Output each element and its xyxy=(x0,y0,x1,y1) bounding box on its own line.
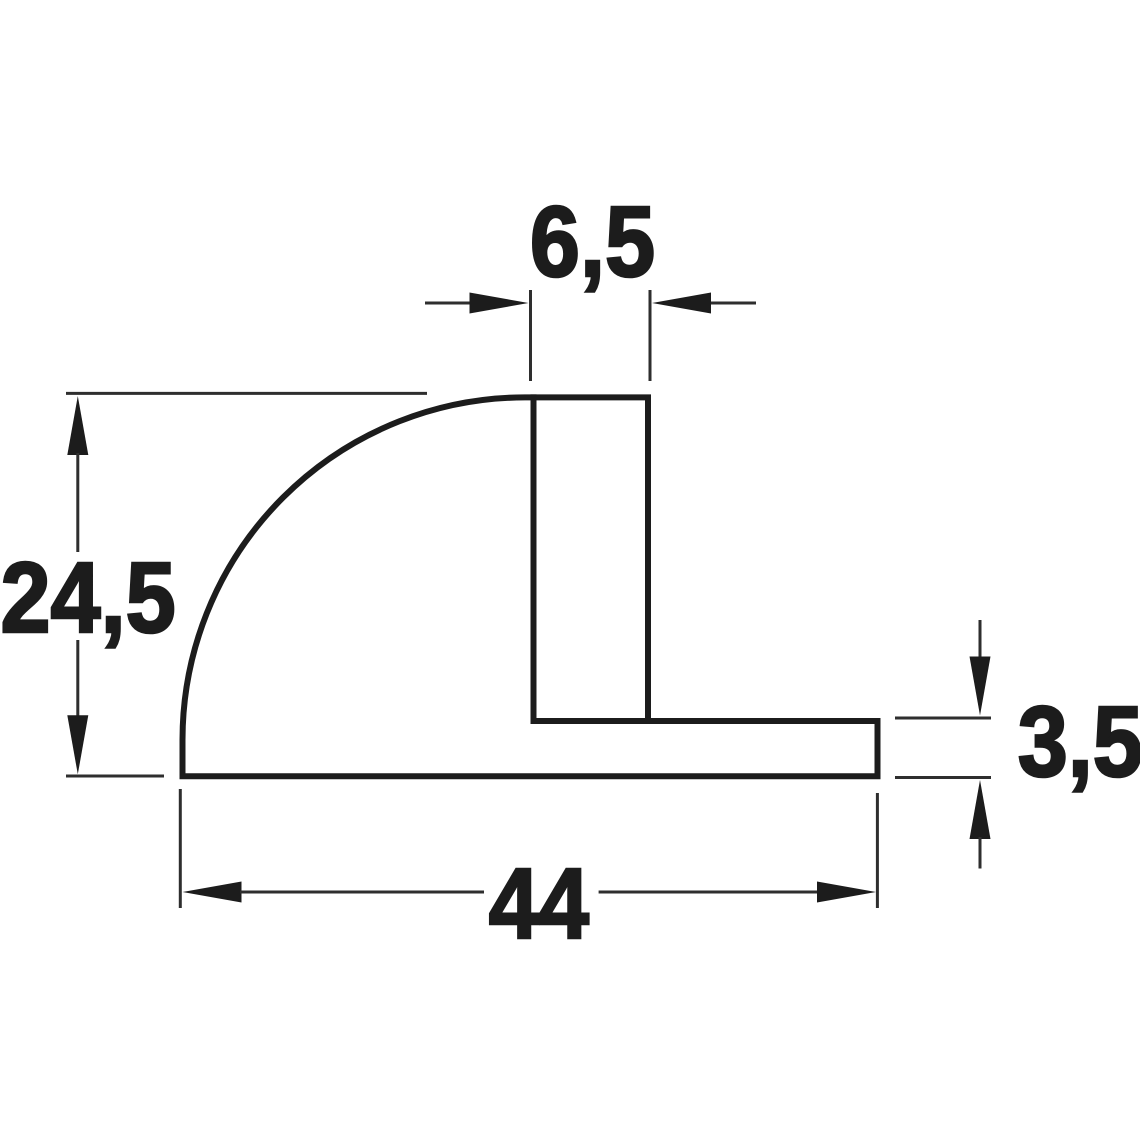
dim 3,5 lower arrowhead xyxy=(970,780,991,839)
extension line 6,5 left xyxy=(529,290,532,381)
dim 24,5 upper tail xyxy=(76,453,79,552)
svg-text:3,5: 3,5 xyxy=(1018,687,1140,798)
door stop profile outline xyxy=(183,397,878,776)
label 6,5 xyxy=(530,187,655,298)
extension line 44 left xyxy=(179,789,182,908)
dim 3,5 upper arrowhead xyxy=(970,657,991,716)
dim 6,5 right arrowhead xyxy=(652,293,711,314)
svg-text:44: 44 xyxy=(489,849,589,960)
svg-text:6,5: 6,5 xyxy=(530,187,655,298)
dim 24,5 upper arrowhead xyxy=(67,396,88,455)
dim 44 right tail xyxy=(599,891,817,894)
dim 24,5 lower arrowhead xyxy=(67,715,88,774)
label 44 xyxy=(489,849,589,960)
label 24,5 xyxy=(1,543,176,654)
dim 44 left tail xyxy=(240,891,484,894)
dim 6,5 left tail xyxy=(425,302,471,305)
extension line 24,5 top xyxy=(66,392,427,395)
label 3,5 xyxy=(1018,687,1140,798)
dim 3,5 upper tail xyxy=(979,620,982,658)
dim 6,5 left arrowhead xyxy=(470,293,529,314)
extension line 24,5 bottom xyxy=(66,775,164,778)
dim 24,5 lower tail xyxy=(76,640,79,716)
dim 44 left arrowhead xyxy=(183,882,242,903)
rib left edge and plate top under rib xyxy=(534,394,652,721)
dim 44 right arrowhead xyxy=(817,882,876,903)
extension line 3,5 top xyxy=(895,717,991,720)
extension line 6,5 right xyxy=(649,290,652,381)
dim 6,5 right tail xyxy=(710,302,756,305)
svg-text:24,5: 24,5 xyxy=(1,543,176,654)
dim 3,5 lower tail xyxy=(979,837,982,869)
extension line 3,5 bottom xyxy=(895,776,991,779)
extension line 44 right xyxy=(876,793,879,908)
